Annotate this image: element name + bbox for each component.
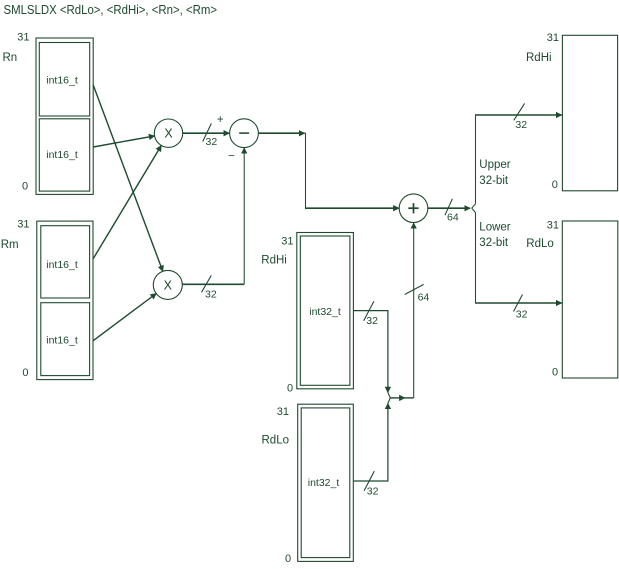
svg-text:Lower: Lower bbox=[479, 222, 510, 234]
bit-width slash 32 on X2 output bbox=[202, 275, 217, 300]
wire subtractor output to corner bbox=[259, 132, 305, 134]
svg-text:32: 32 bbox=[515, 119, 527, 131]
svg-text:32: 32 bbox=[366, 315, 378, 327]
svg-text:Rm: Rm bbox=[1, 239, 19, 251]
register Rn field int16_t high bbox=[39, 43, 89, 117]
svg-text:31: 31 bbox=[17, 219, 29, 231]
wire RdHi output down to merge junction bbox=[353, 310, 388, 392]
svg-text:int16_t: int16_t bbox=[46, 75, 78, 87]
svg-text:32: 32 bbox=[205, 289, 217, 301]
svg-text:0: 0 bbox=[287, 383, 293, 395]
bit-width slash 32 on RdHi output bbox=[364, 301, 378, 327]
svg-text:Upper: Upper bbox=[479, 159, 510, 171]
register Rn outer box bbox=[36, 38, 93, 194]
svg-text:X: X bbox=[164, 127, 173, 141]
svg-text:RdLo: RdLo bbox=[262, 435, 290, 447]
wire Rm high half to multiplier X1 bbox=[93, 146, 161, 259]
svg-text:0: 0 bbox=[285, 553, 291, 565]
register RdHi field int32_t bbox=[300, 236, 350, 385]
bit-width slash 32 on RdHi input bbox=[514, 103, 527, 131]
wire RdLo output up to merge junction bbox=[353, 403, 388, 481]
svg-text:31: 31 bbox=[281, 235, 293, 247]
split junction into upper and lower 32-bit bbox=[472, 204, 476, 213]
wire corner down and right to adder bbox=[305, 133, 399, 209]
svg-text:0: 0 bbox=[552, 367, 558, 379]
wire lower 32 bits to RdLo bbox=[475, 213, 562, 303]
svg-text:−: − bbox=[228, 150, 235, 162]
svg-text:31: 31 bbox=[547, 32, 559, 44]
svg-text:31: 31 bbox=[277, 406, 289, 418]
svg-text:Rn: Rn bbox=[3, 52, 18, 64]
svg-text:int16_t: int16_t bbox=[46, 149, 78, 161]
svg-text:RdHi: RdHi bbox=[261, 255, 287, 267]
register Rm field int16_t low bbox=[41, 303, 90, 376]
svg-text:32-bit: 32-bit bbox=[479, 237, 509, 249]
svg-text:32-bit: 32-bit bbox=[479, 175, 509, 187]
bit-width slash 64 on adder lower input bbox=[405, 284, 430, 303]
register RdLo field int32_t bbox=[301, 408, 350, 558]
register Rm outer box bbox=[37, 221, 93, 380]
svg-text:0: 0 bbox=[22, 181, 28, 193]
bit-width slash 64 on adder output bbox=[445, 199, 459, 224]
multiplier X1 bbox=[154, 119, 182, 147]
wire adder output to split junction bbox=[428, 207, 470, 209]
svg-text:0: 0 bbox=[552, 179, 558, 191]
wire multiplier X1 to subtractor bbox=[183, 132, 230, 134]
merge junction of RdHi and RdLo into 64-bit bbox=[388, 393, 414, 404]
svg-text:RdLo: RdLo bbox=[526, 238, 554, 250]
bit-width slash 32 on RdLo input bbox=[514, 295, 528, 321]
subtractor node bbox=[230, 119, 259, 148]
svg-text:int32_t: int32_t bbox=[309, 306, 341, 318]
bit-width slash 32 on RdLo output bbox=[364, 471, 379, 497]
svg-text:32: 32 bbox=[206, 136, 218, 148]
register Rn field int16_t low bbox=[39, 119, 89, 191]
multiplier X2 bbox=[153, 270, 182, 299]
label Upper 32-bit bbox=[479, 159, 510, 187]
register RdLo (accumulator) outer box bbox=[298, 404, 354, 561]
svg-text:0: 0 bbox=[22, 367, 28, 379]
svg-text:32: 32 bbox=[367, 486, 379, 498]
svg-text:32: 32 bbox=[516, 309, 528, 321]
svg-text:int16_t: int16_t bbox=[46, 334, 78, 346]
wire 64-bit accumulator value up to adder bbox=[413, 223, 415, 398]
svg-text:31: 31 bbox=[547, 219, 559, 231]
label Lower 32-bit bbox=[479, 222, 510, 250]
svg-text:X: X bbox=[164, 278, 173, 292]
wire upper 32 bits to RdHi bbox=[475, 115, 562, 204]
svg-text:int16_t: int16_t bbox=[46, 259, 78, 271]
svg-text:64: 64 bbox=[418, 292, 430, 304]
destination register RdHi box bbox=[562, 35, 617, 191]
destination register RdLo box bbox=[562, 221, 618, 378]
svg-text:31: 31 bbox=[17, 32, 29, 44]
register Rm field int16_t high bbox=[41, 226, 90, 298]
bit-width slash 32 on X1 output bbox=[203, 123, 218, 148]
wire multiplier X2 to subtractor lower input bbox=[182, 148, 244, 284]
svg-text:RdHi: RdHi bbox=[526, 52, 552, 64]
svg-text:SMLSLDX <RdLo>, <RdHi>, <Rn>: SMLSLDX <RdLo>, <RdHi>, <Rn>, <Rm> bbox=[4, 2, 218, 17]
svg-text:int32_t: int32_t bbox=[308, 477, 340, 489]
wire Rm low half to multiplier X2 bbox=[93, 294, 156, 341]
adder node bbox=[399, 194, 428, 223]
register RdHi (accumulator) outer box bbox=[297, 233, 354, 389]
svg-text:+: + bbox=[217, 114, 224, 126]
wire Rn high half to multiplier X2 bbox=[93, 85, 163, 271]
wire Rn low half to multiplier X1 bbox=[93, 136, 154, 147]
svg-text:64: 64 bbox=[447, 211, 459, 223]
